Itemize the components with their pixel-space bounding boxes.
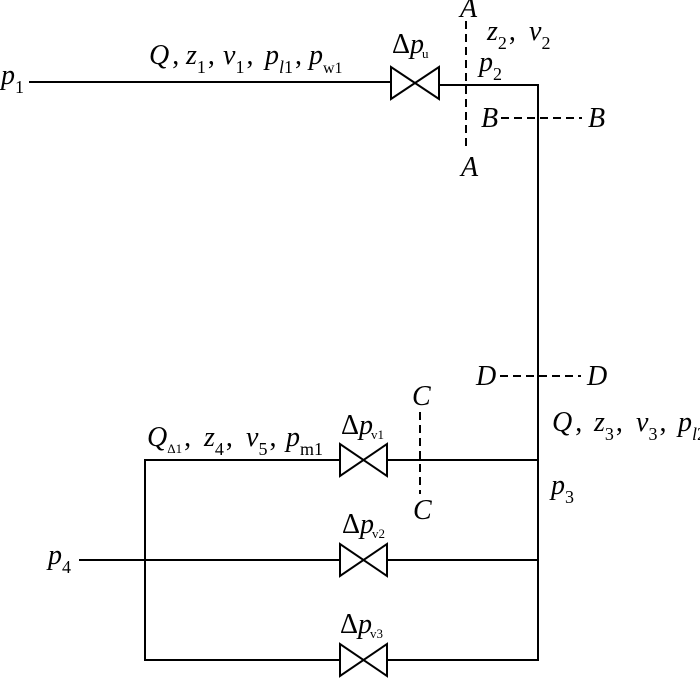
svg-text:QΔ1,: QΔ1, [147, 422, 191, 456]
wire branch 1 left segment [145, 459, 340, 461]
svg-text:Δpv3: Δpv3 [340, 609, 383, 641]
svg-text:D: D [475, 361, 496, 392]
svg-text:v1,: v1, [223, 40, 253, 77]
svg-text:Q,: Q, [552, 407, 582, 438]
wire branch 3 left segment [145, 659, 340, 661]
valve V2 (bowtie symbol) [340, 544, 387, 576]
svg-text:Q,: Q, [149, 40, 179, 71]
section line B-B (dashed horizontal) [501, 117, 582, 119]
svg-text:pl2: pl2 [676, 407, 700, 444]
wire right vertical main pipe [537, 84, 539, 661]
svg-text:pw1: pw1 [307, 40, 343, 77]
wire branch 1 right segment [388, 459, 539, 461]
wire pipe from valve U to right corner [440, 84, 539, 86]
svg-text:A: A [459, 152, 479, 183]
svg-text:Δpv1: Δpv1 [341, 410, 384, 442]
section line D-D (dashed horizontal) [500, 375, 581, 377]
svg-text:A: A [458, 0, 478, 24]
svg-text:pm1: pm1 [284, 422, 323, 459]
svg-text:p1: p1 [0, 60, 24, 97]
section line A-A (dashed vertical) [465, 21, 467, 148]
wire branch 2 left segment from p4 [79, 559, 340, 561]
svg-text:B: B [481, 103, 498, 134]
svg-text:z1,: z1, [185, 40, 215, 77]
svg-text:v5,: v5, [246, 422, 276, 459]
valve V3 (bowtie symbol) [340, 644, 387, 676]
svg-text:p3: p3 [549, 470, 574, 507]
wire main inlet pipe from p1 to valve U [29, 81, 391, 83]
svg-text:B: B [588, 103, 605, 134]
valve V1 (bowtie symbol) [340, 444, 387, 476]
valve U (bowtie symbol) [391, 67, 439, 99]
svg-text:D: D [586, 361, 607, 392]
svg-text:v2: v2 [529, 16, 550, 53]
svg-text:Δpu: Δpu [392, 29, 429, 61]
svg-text:C: C [412, 381, 431, 412]
wire branch 3 right segment [388, 659, 539, 661]
svg-text:v3,: v3, [636, 407, 666, 444]
svg-text:Δpv2: Δpv2 [342, 509, 385, 541]
svg-text:pl1,: pl1, [263, 40, 302, 77]
svg-text:z3,: z3, [593, 407, 623, 444]
wire left vertical manifold pipe [144, 459, 146, 661]
svg-text:p4: p4 [46, 540, 71, 577]
wire branch 2 right segment [388, 559, 539, 561]
svg-text:z4,: z4, [203, 422, 233, 459]
svg-text:C: C [413, 495, 432, 526]
section line C-C (dashed vertical) [419, 412, 421, 494]
